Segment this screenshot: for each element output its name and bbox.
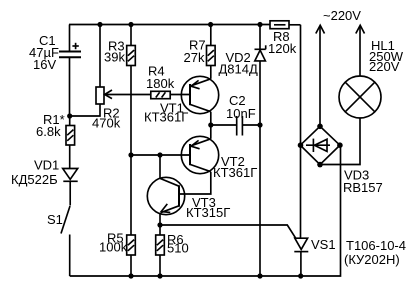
node VD2 line / C2 right <box>257 122 262 127</box>
node bridge top corner <box>317 124 323 130</box>
resistor R6 <box>156 225 165 276</box>
node VT1 collector / C2 / VT2 emitter <box>208 122 213 127</box>
transistor VT2 <box>179 125 219 194</box>
node top rail / R2 top <box>97 22 102 27</box>
wire top supply rail <box>69 24 270 26</box>
switch S1 <box>61 206 70 276</box>
capacitor C2 <box>211 116 260 136</box>
svg-text:16V: 16V <box>33 57 56 72</box>
node bridge bottom corner <box>317 162 323 168</box>
svg-text:39k: 39k <box>104 50 125 65</box>
svg-text:10nF: 10nF <box>226 106 256 121</box>
resistor R3 <box>127 25 136 66</box>
wire VS1 gate <box>160 225 296 238</box>
lamp HL1 <box>320 25 381 164</box>
svg-text:(КУ202Н): (КУ202Н) <box>344 252 400 267</box>
svg-text:КТ315Г: КТ315Г <box>186 205 230 220</box>
svg-text:470k: 470k <box>92 116 121 131</box>
wire R8 down to bridge left corner and VS1 anode <box>300 25 302 238</box>
node top rail / VD2-R8 <box>257 22 262 27</box>
svg-text:S1: S1 <box>47 212 63 227</box>
zener diode VD2 <box>255 25 266 277</box>
svg-text:27k: 27k <box>184 50 205 65</box>
svg-text:100k: 100k <box>99 240 128 255</box>
node bridge right corner <box>337 142 343 148</box>
node bottom rail / R5 <box>128 273 133 278</box>
wire mains arrow left <box>316 25 325 126</box>
wire base line y=155 <box>131 154 190 156</box>
thyristor VS1 <box>294 238 308 276</box>
transistor VT1 <box>181 76 218 125</box>
node C1 / R1 / R2-bottom <box>67 113 72 118</box>
svg-text:120k: 120k <box>268 41 297 56</box>
node bottom rail / VS1 cathode <box>298 273 303 278</box>
node top rail / R3 top <box>128 22 133 27</box>
svg-text:510: 510 <box>167 241 189 256</box>
node VT3 emitter / R6 / VS1 gate <box>157 222 162 227</box>
node bridge left corner <box>298 142 304 148</box>
resistor R7 <box>207 25 216 79</box>
svg-text:VS1: VS1 <box>311 237 336 252</box>
svg-text:180k: 180k <box>146 76 175 91</box>
wire bottom rail <box>70 145 341 276</box>
node bottom rail / VD2 line <box>257 273 262 278</box>
svg-text:КД522Б: КД522Б <box>11 172 58 187</box>
svg-text:6.8k: 6.8k <box>36 124 61 139</box>
resistor R8 <box>270 21 301 29</box>
bridge rectifier VD3 <box>300 126 340 164</box>
svg-text:КТ361Г: КТ361Г <box>213 165 257 180</box>
svg-text:~220V: ~220V <box>323 8 361 23</box>
svg-text:VD1: VD1 <box>34 158 59 173</box>
svg-text:220V: 220V <box>369 59 400 74</box>
svg-text:Т106-10-4: Т106-10-4 <box>346 238 406 253</box>
node y155 / VT3 collector <box>157 152 162 157</box>
svg-text:RB157: RB157 <box>343 180 383 195</box>
wire R3 bottom to R5 top <box>130 66 132 236</box>
potentiometer R2 <box>70 25 151 117</box>
diode VD1 <box>63 169 78 206</box>
svg-text:КТ361Г: КТ361Г <box>144 110 188 125</box>
resistor R4 <box>151 91 190 98</box>
node y155 / R3-R5 column <box>128 152 133 157</box>
node top rail / R7 top <box>208 22 213 27</box>
resistor R5 <box>127 235 136 276</box>
svg-text:Д814Д: Д814Д <box>219 62 258 77</box>
transistor VT3 <box>147 155 184 225</box>
resistor R1 <box>66 116 75 168</box>
capacitor C1 <box>59 25 81 117</box>
node bottom rail / R6 <box>157 273 162 278</box>
